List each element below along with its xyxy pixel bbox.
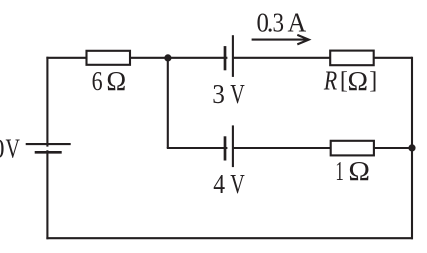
battery B2 4V short plate: [224, 136, 227, 160]
node A junction dot: [164, 54, 171, 61]
svg-text:0: 0: [0, 134, 4, 164]
wire top-left segment: [46, 57, 86, 59]
svg-text:V: V: [230, 169, 245, 199]
svg-text:R: R: [323, 65, 338, 95]
svg-text:Ω: Ω: [348, 156, 370, 186]
svg-text:Ω: Ω: [348, 66, 369, 96]
wire right vertical: [411, 57, 413, 239]
label 4 V: [213, 169, 245, 199]
label 1 Ohm: [335, 156, 370, 186]
resistor R: [330, 51, 374, 66]
wire middle-right segment: [374, 147, 412, 149]
label 0 V (partially cut off at left edge): [0, 134, 20, 164]
label 6 Ohm: [92, 66, 127, 96]
svg-text:]: ]: [369, 68, 377, 94]
battery B2 4V long plate: [232, 125, 234, 167]
wire top-middle segment: [130, 57, 227, 59]
resistor 1 Ohm: [331, 141, 374, 156]
battery B3 short plate: [35, 151, 62, 154]
svg-text:6: 6: [92, 66, 103, 96]
label 3 V: [212, 79, 245, 109]
wire left vertical lower: [46, 150, 48, 239]
wire middle-left segment: [167, 147, 228, 149]
label R [Ohm]: [323, 65, 377, 96]
svg-text:3: 3: [273, 8, 285, 38]
wire bottom: [46, 237, 413, 239]
battery B1 3V short plate: [224, 46, 227, 70]
wire top-right segment: [233, 57, 330, 59]
wire to top-right corner: [374, 57, 413, 59]
current arrow 0.3A: [252, 35, 309, 45]
svg-text:1: 1: [335, 156, 343, 186]
label 0.3 A: [257, 8, 307, 38]
wire left vertical upper: [46, 57, 48, 147]
svg-text:3: 3: [212, 79, 225, 109]
svg-text:Ω: Ω: [106, 66, 126, 96]
battery B1 3V long plate: [232, 35, 234, 77]
svg-text:A: A: [288, 8, 307, 38]
wire middle vertical from node A: [167, 58, 169, 148]
node B junction dot: [408, 144, 415, 151]
svg-text:V: V: [230, 79, 245, 109]
svg-text:V: V: [6, 134, 21, 164]
battery B3 long plate: [26, 143, 71, 145]
svg-text:4: 4: [213, 169, 225, 199]
wire middle segment: [233, 147, 331, 149]
resistor 6 Ohm: [87, 51, 131, 65]
